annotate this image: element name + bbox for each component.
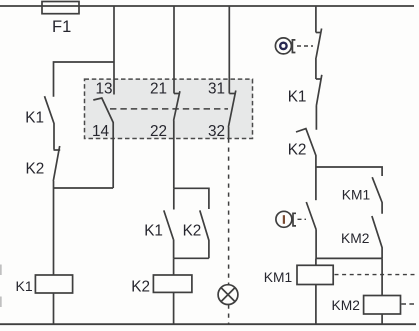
dashed link KM1 coil: [335, 274, 418, 276]
mechanical coupling dashed line: [110, 108, 228, 110]
wire: left branch tap: [54, 62, 115, 97]
svg-text:K1: K1: [25, 109, 44, 126]
svg-text:31: 31: [208, 80, 225, 97]
svg-text:KM1: KM1: [342, 187, 370, 202]
wire: branch 2 drop from bus: [173, 6, 175, 94]
dashed link start button: [298, 218, 307, 220]
svg-text:K1: K1: [16, 278, 33, 294]
dashed link KM2 coil: [401, 303, 414, 305]
contact 13-14 (NO with flag, in block): [93, 98, 113, 188]
svg-text:13: 13: [95, 80, 112, 97]
svg-text:21: 21: [150, 80, 167, 97]
contact K2 (NO, middle): [200, 210, 209, 258]
wire: K2 coil to bottom bus: [173, 292, 175, 324]
contact K1 (NO, middle): [164, 210, 174, 258]
gray contact-block highlight box: [85, 79, 253, 138]
contact K2 (NO with flag, right branch): [296, 129, 316, 167]
svg-text:KM1: KM1: [264, 270, 292, 285]
wire: K1 coil to bottom bus: [53, 293, 55, 324]
wire: KM2 coil to bottom bus: [381, 314, 383, 324]
bottom bus: [0, 323, 416, 325]
wire: junction left branch: [54, 187, 114, 189]
wire: drop to KM2 coil: [381, 258, 383, 295]
contact stop (NC): [316, 29, 322, 80]
contact K1 (NO, left branch): [45, 96, 55, 149]
svg-text:K2: K2: [131, 278, 150, 295]
contact 31-32 (NC, in block): [228, 91, 235, 139]
svg-text:KM2: KM2: [332, 298, 360, 313]
wire: right parallel split: [316, 167, 382, 176]
fuse F1: [42, 2, 79, 14]
wire: middle left sub-branch: [173, 188, 175, 209]
coil KM1: [297, 265, 333, 284]
top bus: [0, 5, 414, 7]
contact start (NO): [306, 202, 316, 258]
wire: middle parallel split top: [174, 188, 209, 209]
svg-text:K2: K2: [288, 141, 307, 158]
contact K2 (NC, left branch): [53, 146, 60, 188]
coil K2: [153, 275, 192, 292]
stop pushbutton operator: [275, 38, 295, 54]
wire: middle parallel join bottom: [174, 257, 209, 259]
svg-text:K1: K1: [144, 223, 163, 240]
svg-text:K1: K1: [288, 88, 307, 105]
wire: KM1 coil to bottom bus: [315, 285, 317, 325]
wire: start branch: [315, 167, 317, 200]
svg-text:32: 32: [208, 123, 225, 140]
contact KM1 (NO, right): [372, 177, 382, 214]
svg-text:F1: F1: [52, 18, 71, 36]
wire: dashed lamp to bottom bus: [228, 305, 230, 325]
wire: right parallel join: [316, 257, 382, 259]
contact K1 (NC, right branch): [316, 75, 322, 130]
dashed link stop button: [297, 45, 313, 47]
wire: dashed drop to lamp: [228, 139, 230, 285]
wire: drop to KM1 coil: [315, 258, 317, 265]
svg-text:K2: K2: [183, 223, 202, 240]
wire: drop to K1 coil: [53, 188, 55, 275]
wire: branch 4 drop from bus: [315, 6, 317, 33]
svg-text:K2: K2: [26, 161, 45, 178]
wire: branch 1 drop from bus: [113, 6, 115, 95]
lamp H1: [218, 285, 238, 305]
coil K1: [35, 275, 72, 293]
svg-text:22: 22: [150, 123, 167, 140]
contact KM2 (NO, right): [372, 216, 382, 258]
edge artifact marks: [0, 265, 2, 308]
coil KM2: [364, 296, 401, 315]
svg-text:14: 14: [92, 123, 110, 140]
wire: drop to K2 coil: [173, 258, 175, 275]
wire: branch 3 drop from bus: [228, 6, 230, 94]
start pushbutton operator: [276, 211, 296, 227]
svg-text:KM2: KM2: [341, 231, 369, 246]
contact 21-22 (NC, in block): [174, 91, 180, 188]
